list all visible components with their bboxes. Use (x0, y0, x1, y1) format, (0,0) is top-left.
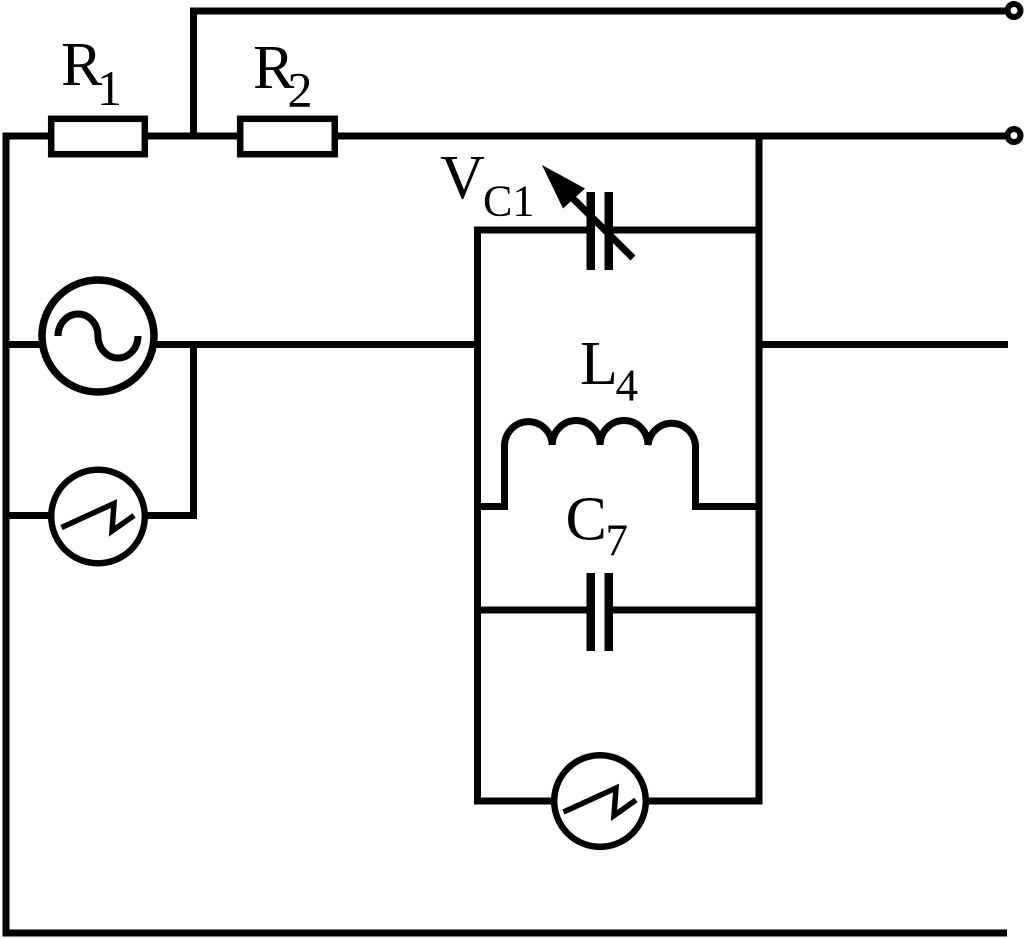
wire left outer vertical (3, 133, 10, 937)
noise source bottom sawtooth symbol (564, 788, 637, 816)
svg-text:C: C (566, 486, 607, 554)
wire top horizontal (190, 8, 1005, 15)
variable capacitor VC1 left plate (587, 192, 596, 270)
wire noise source to junction vertical (141, 512, 197, 519)
wire vertical from top wire to R1-R2 node (190, 8, 197, 140)
noise source upper sawtooth symbol (62, 504, 135, 532)
wire AC source to left tank rail (152, 341, 481, 348)
svg-text:7: 7 (606, 516, 629, 566)
wire left edge to R1 (3, 133, 52, 140)
wire right tank rail vertical (756, 133, 763, 805)
AC source circle (42, 280, 154, 392)
wire left edge to noise source (3, 512, 57, 519)
svg-text:L: L (580, 330, 618, 398)
capacitor C7 right plate (605, 573, 614, 651)
wire vertical junction to noise source branch (190, 341, 197, 519)
svg-text:1: 1 (97, 60, 122, 116)
terminal second right (1008, 129, 1021, 142)
wire bottom horizontal (3, 930, 1008, 937)
variable capacitor VC1 right plate (605, 192, 614, 270)
wire R2 to right terminal (335, 133, 1005, 140)
wire left edge to AC source (3, 341, 45, 348)
wire C7 right lead (612, 607, 763, 614)
wire left tank rail vertical (474, 227, 481, 805)
wire VC1 right lead (612, 227, 763, 234)
variable capacitor VC1 arrowhead (542, 165, 585, 209)
wire right tank rail to right edge (756, 341, 1009, 348)
capacitor C7 left plate (587, 573, 596, 651)
resistor R2 (240, 119, 335, 154)
svg-text:4: 4 (616, 361, 639, 411)
wire bottom source left lead (474, 798, 556, 805)
svg-text:2: 2 (288, 62, 313, 118)
noise source upper circle (51, 470, 145, 564)
svg-text:C1: C1 (483, 177, 534, 226)
wire VC1 left lead (474, 227, 588, 234)
wire C7 left lead (474, 607, 588, 614)
svg-text:V: V (440, 144, 485, 212)
wire bottom source right lead (644, 798, 763, 805)
wire R1 to R2 (145, 133, 240, 140)
variable capacitor VC1 arrow shaft (573, 199, 633, 259)
AC source sine symbol (58, 314, 138, 358)
resistor R1 (51, 119, 145, 154)
inductor L4 (474, 420, 763, 506)
noise source bottom circle (554, 755, 646, 847)
terminal top right (1008, 4, 1021, 17)
